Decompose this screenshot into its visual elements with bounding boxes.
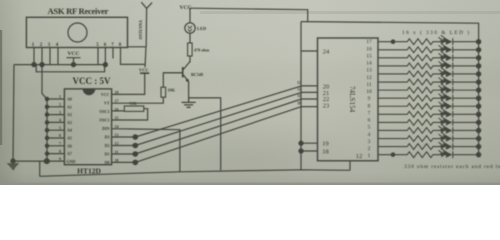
svg-text:D1: D1 [105, 152, 110, 157]
svg-text:A3: A3 [67, 120, 72, 125]
svg-text:16: 16 [366, 46, 372, 52]
svg-text:24: 24 [323, 48, 330, 55]
svg-text:A5: A5 [67, 136, 72, 141]
svg-text:A0: A0 [67, 97, 72, 102]
svg-text:51K: 51K [129, 101, 137, 106]
svg-text:6: 6 [59, 133, 61, 138]
svg-text:12: 12 [356, 153, 363, 160]
svg-text:18: 18 [322, 148, 329, 155]
svg-text:D2: D2 [105, 143, 110, 148]
svg-text:11: 11 [115, 149, 119, 154]
svg-text:11: 11 [366, 82, 371, 88]
svg-text:14: 14 [115, 124, 119, 129]
svg-text:A2: A2 [67, 112, 72, 117]
svg-text:13: 13 [115, 132, 119, 137]
svg-text:470 ohm: 470 ohm [194, 48, 210, 53]
svg-text:OSC1: OSC1 [99, 109, 109, 114]
svg-text:A7: A7 [67, 151, 72, 156]
svg-text:8: 8 [59, 149, 61, 154]
svg-text:18: 18 [115, 90, 119, 95]
svg-text:2: 2 [368, 146, 371, 152]
svg-text:10K: 10K [168, 88, 176, 93]
svg-text:7: 7 [368, 110, 371, 116]
svg-text:A4: A4 [67, 128, 72, 133]
svg-text:9: 9 [59, 156, 61, 161]
svg-text:330 ohm resistor each and red: 330 ohm resistor each and red led [404, 164, 500, 170]
svg-text:GND: GND [67, 159, 76, 164]
svg-text:5: 5 [59, 125, 61, 130]
svg-text:17: 17 [366, 39, 372, 45]
svg-text:10: 10 [297, 102, 301, 106]
svg-text:17: 17 [115, 99, 119, 104]
svg-text:BC548: BC548 [191, 72, 203, 77]
svg-text:VCC: VCC [180, 5, 192, 11]
svg-text:15: 15 [366, 53, 372, 59]
svg-text:ASK RF Receiver: ASK RF Receiver [48, 6, 109, 16]
svg-text:74LS154: 74LS154 [348, 86, 356, 113]
svg-text:VCC: VCC [68, 51, 80, 57]
svg-text:VCC : 5V: VCC : 5V [73, 76, 111, 86]
svg-text:16 x ( 330 & LED ): 16 x ( 330 & LED ) [402, 29, 469, 36]
svg-text:8: 8 [368, 103, 371, 109]
svg-text:VCC: VCC [139, 68, 149, 73]
svg-text:DIN: DIN [102, 126, 109, 131]
svg-text:23: 23 [323, 102, 330, 109]
svg-text:7: 7 [59, 141, 61, 146]
svg-text:HT12D: HT12D [77, 167, 101, 176]
svg-text:A6: A6 [67, 143, 72, 148]
svg-text:11: 11 [297, 94, 301, 98]
svg-text:ANTENNA: ANTENNA [138, 20, 143, 40]
svg-text:2: 2 [59, 102, 61, 107]
svg-text:3: 3 [368, 139, 371, 145]
svg-text:10: 10 [115, 158, 119, 163]
svg-text:9: 9 [368, 96, 371, 102]
svg-text:LED: LED [197, 26, 207, 31]
svg-text:14: 14 [366, 61, 372, 67]
svg-text:A1: A1 [67, 104, 72, 109]
svg-text:VT: VT [104, 101, 110, 106]
svg-text:D3: D3 [105, 135, 110, 140]
svg-text:3: 3 [59, 110, 61, 115]
svg-text:VCC: VCC [101, 92, 110, 97]
svg-text:15: 15 [115, 115, 119, 120]
svg-text:12: 12 [297, 88, 301, 92]
svg-text:1: 1 [59, 94, 61, 99]
svg-text:19: 19 [322, 141, 329, 148]
svg-text:1: 1 [368, 153, 371, 159]
svg-text:OSC1: OSC1 [99, 118, 109, 123]
svg-text:13: 13 [366, 68, 372, 74]
svg-text:4: 4 [59, 118, 61, 123]
svg-text:12: 12 [115, 141, 119, 146]
svg-text:6: 6 [368, 118, 371, 124]
svg-text:D0: D0 [105, 160, 110, 165]
svg-text:10: 10 [366, 89, 372, 95]
svg-text:13: 13 [297, 81, 301, 85]
svg-text:4: 4 [368, 132, 371, 138]
svg-text:16: 16 [115, 107, 119, 112]
svg-text:12: 12 [366, 75, 372, 81]
svg-text:5: 5 [368, 125, 371, 131]
